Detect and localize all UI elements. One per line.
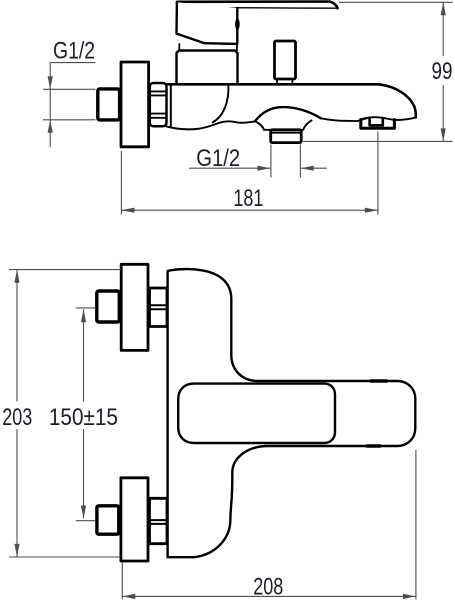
arrowhead 203 up [14,270,19,283]
diverter knob neck [277,79,292,84]
spout bracket crest line [363,117,385,119]
svg-text:150±15: 150±15 [49,404,118,431]
lever blade underside [207,8,337,10]
dome left shoulder [256,122,271,130]
faucet body outline (front) [168,269,416,557]
arrowhead 99 down [441,128,446,141]
arrowhead G1/2 lower left-pointing [301,166,314,171]
arrowhead 208 left [122,594,135,599]
dim 208 line [122,595,416,597]
dome right shoulder [301,120,312,129]
arrowhead 99 up [441,2,446,15]
dim 203 vertical line [16,270,18,557]
inlet pipe square bottom (front) [97,506,119,534]
arrowhead 150 down [81,506,86,519]
arrowhead 208 right [403,594,416,599]
seam dash top edge [371,379,387,382]
seam dash bottom edge [367,444,380,447]
arrowhead G1/2 down [48,76,53,89]
lever handle base [177,2,238,44]
G1/2 top label line [50,62,95,64]
arrowhead G1/2 lower right-pointing [257,166,270,171]
spout underside right [357,117,415,121]
wall flange (side) [121,62,149,147]
dome [255,107,321,121]
pivot screw lens [235,18,240,30]
aerator lip line [271,132,302,134]
valve body box [177,51,238,85]
hex nut facet lines (side) [150,91,167,117]
svg-text:G1/2: G1/2 [53,38,95,65]
wall flange bottom (front) [121,478,148,561]
svg-text:203: 203 [2,404,32,431]
arrowhead 181 left [121,208,134,213]
spout end bracket [361,120,395,129]
body-spout transition curve [213,85,229,123]
hex nut (side) [150,83,167,126]
dim 150 vertical line [83,309,85,518]
aerator extension lines [271,145,301,178]
dim 99 vertical line [442,2,444,141]
hex nut bottom facet lines [150,520,168,524]
G1/2 vertical dim line [49,63,51,147]
dim 99 extension lines [303,2,453,141]
dim 181 extension lines [121,132,378,215]
body left edge (side) [170,86,172,127]
svg-text:G1/2: G1/2 [196,145,240,172]
G1/2 extension lines [43,89,96,120]
aerator [271,130,302,143]
spout end bracket notch [370,118,383,125]
hex nut top (front) [150,288,168,327]
wall flange top (front) [121,264,148,350]
inlet pipe square top (front) [97,291,120,322]
arrowhead 203 down [14,544,19,557]
inlet pipe square (side) [98,89,120,120]
dim 203 extension lines [9,270,121,557]
svg-text:181: 181 [233,185,263,212]
svg-text:208: 208 [253,573,283,600]
underside between dome and bracket [321,118,357,121]
dim 208 extension lines [122,450,416,600]
spout nose curve [378,84,416,117]
hex nut top facet lines [150,305,168,309]
svg-text:99: 99 [432,58,453,85]
G1/2 lower label line [189,167,327,169]
body top line [166,83,378,86]
lever blade top edge [177,2,338,9]
arrowhead 150 up [81,309,86,322]
handle front (stadium) [178,384,335,443]
cartridge collar [179,44,237,51]
diverter knob [275,41,296,79]
arrowhead 181 right [365,208,378,213]
arrowhead G1/2 up [48,120,53,133]
dim 181 line [121,209,377,211]
body bottom wavy line [166,121,254,129]
hex nut bottom (front) [150,498,168,543]
dim 150 extension ticks [76,308,96,521]
